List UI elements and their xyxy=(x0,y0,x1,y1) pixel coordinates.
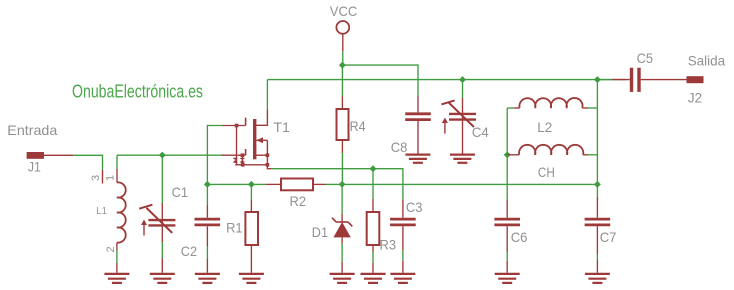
resistor R1 xyxy=(245,212,258,245)
svg-text:C1: C1 xyxy=(172,184,189,200)
svg-text:1: 1 xyxy=(105,175,117,181)
resistor R4 xyxy=(337,109,349,140)
svg-text:VCC: VCC xyxy=(330,3,358,19)
node G2 dot xyxy=(235,124,239,128)
zener pair B xyxy=(240,158,244,163)
node CH left junction xyxy=(504,151,511,158)
wire R3 riser xyxy=(372,169,374,199)
ground under R1 xyxy=(239,274,264,283)
wire C7 to ground xyxy=(596,226,598,254)
wire right vertical xyxy=(596,80,598,185)
wire D1 riser xyxy=(341,184,343,214)
resistor R3 xyxy=(367,212,380,245)
source lead with arrow xyxy=(256,139,267,141)
wire R1 riser xyxy=(250,184,252,200)
bulk lead xyxy=(255,154,267,156)
wire VCC down xyxy=(342,34,344,51)
svg-text:Entrada: Entrada xyxy=(7,122,57,138)
pin 3 stub of L1 xyxy=(102,170,104,184)
bus wire y=184.4 xyxy=(207,183,266,185)
gate 1 electrode xyxy=(245,149,247,155)
zener pair A xyxy=(233,158,237,163)
svg-text:C6: C6 xyxy=(511,229,528,245)
wire C1 to ground xyxy=(161,242,163,258)
wire C6 riser xyxy=(506,155,508,200)
svg-text:3: 3 xyxy=(90,175,102,181)
gate 2 wire red part xyxy=(223,125,246,127)
svg-text:D1: D1 xyxy=(312,224,328,240)
svg-text:J2: J2 xyxy=(688,90,703,106)
ground under D1 xyxy=(330,274,355,283)
node R1 bus junction xyxy=(248,181,255,188)
wire VCC to C8 xyxy=(342,65,418,96)
wire R2 right xyxy=(313,183,326,185)
zener diode D1 xyxy=(332,218,352,238)
transistor T1 dual-gate MOSFET xyxy=(222,80,272,169)
resistor R2 xyxy=(281,179,313,191)
wire VCC to R4 xyxy=(341,65,343,96)
trimmer capacitor C4 xyxy=(441,100,476,133)
wire C1 riser xyxy=(161,155,163,203)
wire left tank vertical xyxy=(506,108,508,155)
wire C7 riser xyxy=(596,184,598,197)
svg-text:C5: C5 xyxy=(637,50,654,66)
wire C2 to ground xyxy=(206,226,208,246)
svg-text:R4: R4 xyxy=(350,118,366,134)
connector J2 xyxy=(687,76,704,83)
inductor L2 leads xyxy=(507,107,514,109)
node C4 junction xyxy=(459,76,466,83)
pin 1 riser xyxy=(116,155,118,169)
svg-text:C4: C4 xyxy=(472,124,489,140)
wire C4 to ground xyxy=(462,135,464,155)
capacitor C5 xyxy=(632,68,640,92)
wire to C5 xyxy=(597,79,611,81)
capacitor C3 xyxy=(390,219,416,225)
svg-text:Salida: Salida xyxy=(688,52,726,68)
capacitor C8 xyxy=(405,114,431,120)
source wire y=168.7 xyxy=(271,169,403,200)
ground under C6 xyxy=(495,274,520,283)
svg-text:L1: L1 xyxy=(96,205,107,217)
wire R1 to ground xyxy=(250,245,252,273)
wire J1 to input node xyxy=(44,154,73,156)
ground under C3 xyxy=(390,274,415,283)
inductor L1 xyxy=(117,182,126,242)
ground under L1 xyxy=(104,274,129,283)
wire C5 to J2 xyxy=(641,79,687,81)
gate 2 electrode xyxy=(245,118,247,126)
capacitor C7 xyxy=(585,219,611,225)
wire D1 to ground xyxy=(341,237,343,243)
wire C3 to ground xyxy=(402,226,404,250)
wire C4 lead xyxy=(462,80,464,98)
trimmer capacitor C1 xyxy=(139,205,175,236)
capacitor C2 xyxy=(195,219,221,225)
wire C8 to ground xyxy=(417,121,419,155)
bus wire to right end xyxy=(342,183,597,185)
svg-text:R2: R2 xyxy=(290,193,307,209)
svg-text:2: 2 xyxy=(105,246,117,252)
wire C8 lead xyxy=(417,96,419,113)
svg-text:R3: R3 xyxy=(380,237,397,253)
node R4/D1 bus junction xyxy=(339,181,346,188)
wire R4 to bus xyxy=(341,140,343,153)
svg-text:J1: J1 xyxy=(28,159,41,175)
svg-text:T1: T1 xyxy=(273,119,290,135)
node VCC junction xyxy=(339,62,346,69)
node C2/G2 bus junction xyxy=(204,181,211,188)
wire L1 top to G1 bus xyxy=(117,154,222,156)
wire R3 to ground xyxy=(372,245,374,252)
node L2/C5 junction xyxy=(594,76,601,83)
svg-text:C3: C3 xyxy=(406,199,423,215)
ground under C2 xyxy=(195,274,220,283)
connector J1 xyxy=(27,152,44,159)
ground under R3 xyxy=(361,274,386,283)
protection rail xyxy=(235,164,267,166)
inductor CH leads xyxy=(507,154,519,156)
svg-text:C8: C8 xyxy=(391,139,408,155)
VCC supply circle xyxy=(336,21,349,34)
node R3 junction xyxy=(370,165,377,172)
ground under C7 xyxy=(585,274,610,283)
svg-text:CH: CH xyxy=(538,164,555,180)
protection chain B xyxy=(241,155,243,165)
drain lead xyxy=(266,80,268,110)
node dots T1 xyxy=(241,153,245,157)
ground under C1 xyxy=(150,274,175,283)
wire C3 lead xyxy=(402,200,404,218)
inductor L2 xyxy=(519,98,582,108)
svg-text:L2: L2 xyxy=(537,119,552,135)
source exit xyxy=(267,165,271,169)
capacitor C6 xyxy=(494,219,520,225)
svg-text:OnubaElectrónica.es: OnubaElectrónica.es xyxy=(72,81,203,102)
pin 2 of L1 xyxy=(116,243,118,251)
svg-text:R1: R1 xyxy=(226,220,243,236)
node input junction xyxy=(159,152,166,159)
wire C6 to ground xyxy=(506,226,508,252)
wire G2 riser xyxy=(207,126,222,185)
source vertical xyxy=(266,140,268,165)
protection chain A xyxy=(236,126,238,165)
ground under C8 xyxy=(405,155,430,163)
svg-text:C7: C7 xyxy=(600,229,617,245)
svg-text:C2: C2 xyxy=(181,243,197,259)
inductor CH xyxy=(519,145,583,155)
node bus right end xyxy=(594,181,601,188)
wire C2 riser xyxy=(206,184,208,205)
channel bar xyxy=(253,119,256,159)
ground under C4 xyxy=(450,155,475,163)
drain wire from T1 along y=79.5 xyxy=(267,79,625,81)
